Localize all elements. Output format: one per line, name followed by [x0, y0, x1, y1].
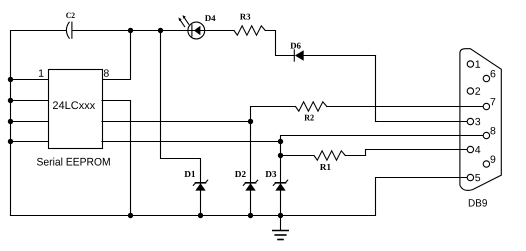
wire R2 to DB9 pin 7	[327, 106, 483, 108]
wire vertical to pin3 row	[375, 56, 377, 122]
wire bottom rail	[11, 215, 376, 217]
node bottom junction x280	[278, 213, 283, 218]
diode D6	[294, 50, 303, 61]
resistor R3	[234, 26, 265, 35]
label C2	[66, 13, 75, 19]
label pin 1	[39, 69, 44, 76]
node junction top rail x130	[128, 28, 133, 33]
wire left bus	[10, 31, 12, 216]
wire D6 to corner	[304, 55, 376, 57]
node bottom junction x250	[248, 213, 253, 218]
node bus junction 4	[8, 139, 13, 144]
label D4	[205, 15, 215, 21]
wire to DB9 pin 8	[281, 136, 484, 142]
label DB9	[469, 199, 487, 206]
label R3	[240, 14, 250, 20]
wire chip pin 2	[11, 100, 49, 102]
DB9 pin 7	[483, 98, 495, 110]
node bus junction 2	[8, 98, 13, 103]
DB9 pin 4	[467, 146, 480, 153]
DB9 pin 6	[483, 70, 495, 82]
node junction D2 top	[248, 119, 253, 124]
resistor R2	[296, 102, 327, 111]
wire top rail segment C	[204, 30, 234, 32]
wire D3 vertical	[280, 142, 282, 216]
DB9 pin 5	[467, 174, 480, 181]
wire chip pin 4	[11, 141, 49, 143]
node bus junction 3	[8, 119, 13, 124]
node junction top rail x160	[158, 28, 163, 33]
wire top rail segment B	[72, 30, 188, 32]
wire top rail to D1 branch	[161, 31, 201, 216]
wire chip pin 5 to D3 node	[102, 141, 281, 143]
zener diode D3	[273, 180, 287, 190]
wire chip pin 7 to bottom rail	[102, 101, 131, 216]
label D6	[290, 43, 300, 49]
connector J1 DB9 outline	[460, 49, 501, 191]
wire R1 to DB9 pin 4	[345, 150, 467, 156]
label Serial EEPROM	[37, 158, 110, 166]
DB9 pin 1	[467, 60, 480, 67]
zener diode D2	[243, 180, 257, 190]
LED D4	[179, 15, 205, 39]
ground	[273, 216, 288, 240]
label R1	[320, 164, 331, 170]
wire R3 to D6	[265, 31, 294, 56]
wire chip pin 3	[11, 121, 49, 123]
label D1	[184, 171, 195, 177]
DB9 pin 9	[483, 155, 495, 167]
label pin 8	[104, 69, 109, 76]
wire chip pin 8 to top rail	[102, 31, 131, 80]
wire chip pin 1	[11, 79, 49, 81]
node bottom junction x130	[128, 213, 133, 218]
label R2	[304, 115, 313, 121]
node junction D3 top	[278, 139, 283, 144]
DB9 pin 3	[467, 118, 480, 125]
node junction R1 tap	[278, 153, 283, 158]
wire riser to R2	[251, 107, 296, 122]
zener diode D1	[193, 180, 207, 190]
wire chip pin 6 to D2 node	[102, 121, 251, 123]
wire top rail segment A	[11, 30, 67, 32]
capacitor C2	[66, 22, 72, 38]
wire to DB9 pin 3	[376, 121, 468, 123]
node bus junction 1	[8, 77, 13, 82]
wire D2 vertical	[250, 122, 252, 216]
wire R1 lead	[281, 155, 315, 157]
resistor R1	[314, 151, 345, 160]
IC U1 24LCxxx	[49, 70, 103, 149]
label D3	[265, 171, 276, 177]
label D2	[235, 171, 246, 177]
label 24LCxxx	[53, 101, 95, 109]
node bottom junction x200	[198, 213, 203, 218]
DB9 pin 2	[467, 87, 480, 94]
wire to DB9 pin 5	[376, 178, 468, 216]
DB9 pin 8	[483, 127, 495, 139]
